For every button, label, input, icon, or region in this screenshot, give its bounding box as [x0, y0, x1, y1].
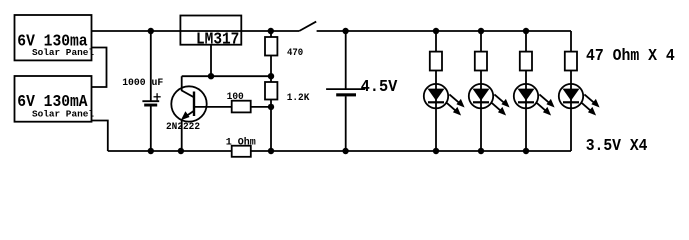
- svg-text:1.2K: 1.2K: [287, 92, 310, 104]
- svg-text:47 Ohm X 4: 47 Ohm X 4: [586, 46, 675, 65]
- svg-text:1000 uF: 1000 uF: [122, 77, 163, 89]
- svg-text:3.5V X4: 3.5V X4: [586, 136, 648, 155]
- svg-text:Solar Panel: Solar Panel: [32, 47, 94, 58]
- svg-text:2N2222: 2N2222: [166, 121, 200, 133]
- svg-text:470: 470: [287, 47, 303, 59]
- svg-text:4.5V: 4.5V: [361, 77, 398, 96]
- svg-text:Solar Panel: Solar Panel: [32, 109, 94, 120]
- svg-text:100: 100: [227, 91, 244, 103]
- svg-text:1 Ohm: 1 Ohm: [226, 136, 256, 148]
- svg-text:LM317: LM317: [196, 30, 239, 49]
